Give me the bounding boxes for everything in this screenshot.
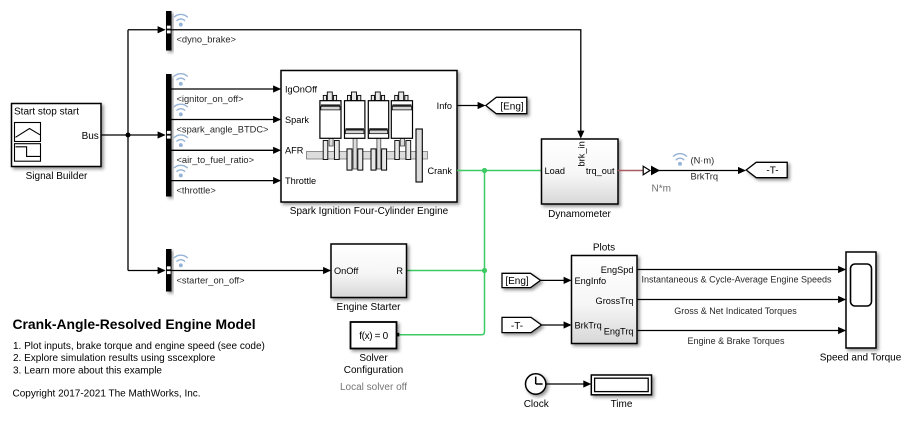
badge: wifi starter [174, 255, 187, 267]
crank webs cyl2 [347, 149, 352, 170]
wire: Crank to Dynamometer Load (physical, green) [457, 170, 542, 172]
svg-text:Dynamometer: Dynamometer [548, 209, 611, 220]
wire: GrossTrq to scope [637, 299, 839, 301]
svg-text:Crank-Angle-Resolved Engine Mo: Crank-Angle-Resolved Engine Model [13, 316, 256, 332]
block: Clock [526, 374, 546, 394]
cylinder 3 [368, 101, 388, 139]
svg-text:2. Explore simulation results: 2. Explore simulation results using ssce… [13, 353, 216, 364]
svg-text:BrkTrq: BrkTrq [691, 171, 719, 181]
piston rod cyl2 [353, 133, 357, 169]
crankshaft [307, 152, 428, 160]
svg-text:<throttle>: <throttle> [177, 185, 216, 195]
svg-text:<spark_angle_BTDC>: <spark_angle_BTDC> [177, 124, 269, 134]
block: Engine Starter [331, 244, 407, 298]
cylinder 2 [345, 101, 365, 139]
svg-text:Copyright 2017-2021 The MathWo: Copyright 2017-2021 The MathWorks, Inc. [13, 388, 201, 399]
svg-text:Gross & Net Indicated Torques: Gross & Net Indicated Torques [674, 306, 797, 316]
svg-text:Load: Load [545, 166, 565, 176]
svg-text:Configuration: Configuration [344, 365, 403, 376]
block: Solver Configuration [351, 322, 400, 349]
arrowhead into bus selector [158, 131, 166, 138]
port: solver physical nub [397, 333, 400, 337]
svg-text:trq_out: trq_out [586, 166, 615, 176]
svg-text:3. Learn more about this examp: 3. Learn more about this example [13, 365, 162, 376]
svg-text:Local solver off: Local solver off [340, 382, 407, 393]
wire: BrkTrq to -T- goto [655, 170, 739, 172]
svg-text:Throttle: Throttle [285, 176, 316, 186]
wire: EngTrq to scope [637, 330, 839, 332]
svg-text:Engine Starter: Engine Starter [337, 302, 402, 313]
icon: engine crankshaft drawing [307, 92, 428, 182]
arrowhead: solid start of BrkTrq signal [651, 166, 660, 176]
svg-text:brk_in: brk_in [577, 141, 587, 166]
piston rod cyl3 [377, 133, 381, 169]
crank webs cyl1 [323, 141, 328, 160]
badge: wifi throttle [174, 165, 187, 177]
svg-text:<dyno_brake>: <dyno_brake> [177, 34, 236, 44]
badge: wifi ignitor [174, 74, 187, 86]
svg-text:OnOff: OnOff [334, 266, 359, 276]
wire: starter_on_off to Engine Starter OnOff [172, 270, 330, 272]
wire: dyno_brake to Dynamometer brk_in [172, 30, 581, 132]
svg-text:-T-: -T- [511, 321, 523, 332]
svg-text:Spark Ignition Four-Cylinder E: Spark Ignition Four-Cylinder Engine [290, 206, 449, 217]
converter: hollow triangle [643, 166, 650, 175]
wire: [Eng] to Plots EngInfo [541, 279, 565, 281]
goto tag: [Eng] [486, 97, 527, 113]
crank webs cyl4 [395, 141, 400, 160]
wire: air_to_fuel_ratio to engine AFR [172, 149, 280, 151]
svg-text:Start stop start: Start stop start [14, 107, 79, 118]
arrowhead into Dynamometer top [577, 131, 584, 139]
valves cyl3 [371, 95, 374, 100]
node: green junction at Engine Starter R wire [482, 268, 487, 273]
svg-text:Plots: Plots [593, 242, 615, 253]
wire: Clock to Time display [546, 383, 584, 385]
svg-text:EngSpd: EngSpd [601, 265, 634, 275]
svg-text:Clock: Clock [524, 399, 550, 410]
svg-text:EngInfo: EngInfo [575, 276, 607, 286]
valves cyl2 [348, 95, 351, 100]
wire: spark_angle_BTDC to engine Spark [172, 119, 280, 121]
svg-text:f(x) = 0: f(x) = 0 [359, 331, 388, 342]
svg-text:N*m: N*m [652, 184, 671, 195]
svg-text:GrossTrq: GrossTrq [596, 296, 634, 306]
cylinder 4 [391, 101, 412, 139]
wire: ignitor_on_off to engine IgOnOff [172, 88, 280, 90]
block: Spark Ignition Four-Cylinder Engine [281, 71, 457, 203]
svg-text:Crank: Crank [427, 166, 452, 176]
node: branch junction on Bus wire [126, 133, 131, 138]
svg-text:Spark: Spark [285, 115, 309, 125]
from tag: [Eng] [502, 273, 541, 287]
wire: trq_out physical-to-signal (dark red) [618, 170, 643, 172]
svg-text:1. Plot inputs, brake torque a: 1. Plot inputs, brake torque and engine … [13, 341, 265, 352]
arrowhead into bottom bus selector [158, 267, 166, 274]
svg-text:Engine & Brake Torques: Engine & Brake Torques [688, 336, 785, 346]
icon: scope screen [851, 264, 872, 306]
wire: branch to bottom bus selector (starter_on_off) [128, 270, 165, 272]
badge: wifi BrkTrq logging [673, 154, 686, 166]
from tag: -T- [502, 317, 542, 332]
wire: Info to [Eng] goto [457, 105, 478, 107]
svg-text:Solver: Solver [359, 353, 388, 364]
wire: throttle to engine Throttle [172, 180, 280, 182]
block: Plots subsystem [572, 256, 638, 344]
goto tag: -T- [746, 162, 787, 177]
wire: vertical trunk from dyno_brake branch down to starter branch [127, 30, 129, 271]
piston rod cyl4 [400, 109, 404, 146]
svg-text:(N·m): (N·m) [691, 156, 715, 166]
svg-text:<starter_on_off>: <starter_on_off> [177, 275, 245, 285]
flywheel [416, 129, 422, 182]
svg-text:AFR: AFR [285, 146, 304, 156]
wire: Engine Starter R to green trunk [407, 270, 485, 272]
svg-text:[Eng]: [Eng] [500, 101, 524, 112]
bus selector bar: dyno_brake (top) [166, 11, 172, 51]
block: Dynamometer [542, 139, 619, 204]
wire: EngSpd to scope [637, 269, 839, 271]
svg-text:Info: Info [437, 101, 452, 111]
piston rod cyl1 [329, 109, 333, 146]
badge: wifi logging dyno_brake [174, 14, 187, 26]
wire: green vertical trunk to solver network [399, 171, 484, 335]
bus selector bar: main (middle) [166, 74, 172, 197]
svg-text:Time: Time [611, 399, 633, 410]
svg-text:R: R [396, 266, 403, 276]
wire: branch to top bus selector (dyno_brake) [128, 29, 165, 31]
svg-text:IgOnOff: IgOnOff [285, 84, 317, 94]
valves cyl4 [395, 95, 398, 100]
badge: wifi afr [174, 135, 187, 147]
crank webs cyl3 [371, 149, 376, 170]
icon: signal builder waveforms [15, 123, 41, 142]
svg-text:BrkTrq: BrkTrq [575, 321, 602, 331]
valves cyl1 [323, 95, 326, 100]
svg-text:Instantaneous & Cycle-Average: Instantaneous & Cycle-Average Engine Spe… [642, 275, 832, 285]
svg-text:-T-: -T- [766, 166, 778, 177]
svg-text:Signal Builder: Signal Builder [26, 171, 88, 182]
svg-text:EngTrq: EngTrq [604, 327, 634, 337]
cylinder 1 [320, 101, 341, 139]
svg-text:Bus: Bus [82, 131, 99, 142]
arrowhead into top bus selector [158, 26, 166, 33]
svg-text:Speed and Torque: Speed and Torque [820, 352, 902, 363]
wire: Bus output from Signal Builder to Bus Selector [101, 134, 165, 136]
bus selector bar: starter (bottom) [166, 249, 172, 292]
block: Time display [591, 375, 651, 395]
svg-text:<ignitor_on_off>: <ignitor_on_off> [177, 94, 244, 104]
wire: -T- to Plots BrkTrq [542, 324, 565, 326]
node: green junction at Crank wire [482, 168, 487, 173]
block: Signal Builder [12, 104, 102, 167]
svg-text:<air_to_fuel_ratio>: <air_to_fuel_ratio> [177, 155, 255, 165]
block: Speed and Torque scope [846, 252, 876, 348]
svg-text:[Eng]: [Eng] [505, 276, 529, 287]
badge: wifi spark [174, 104, 187, 116]
